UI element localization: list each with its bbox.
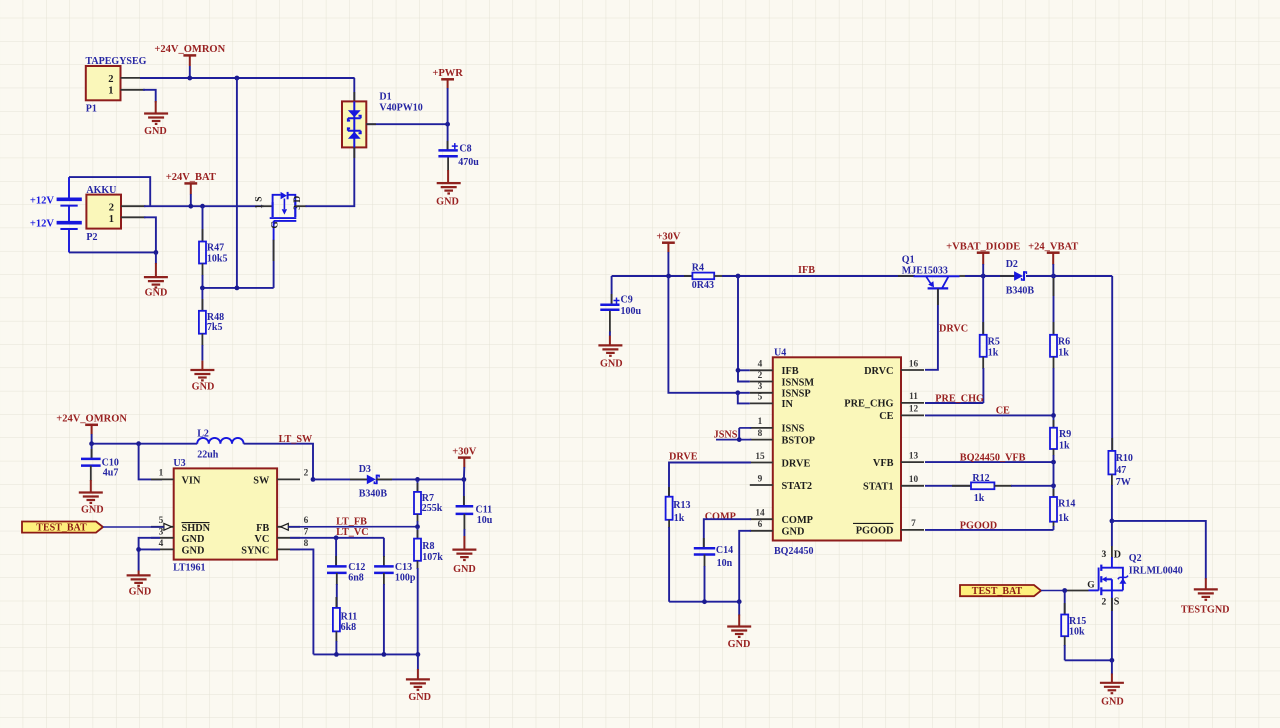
junction +24V_BAT port	[188, 204, 193, 209]
resistor R9 1k	[1050, 415, 1071, 462]
pin 8 of U4	[750, 439, 773, 441]
pin 9 of U4	[750, 484, 773, 486]
svg-text:G: G	[271, 221, 281, 229]
svg-text:1k: 1k	[974, 493, 985, 504]
wire vertical rail x236.9	[236, 78, 238, 288]
pin 12 of U4 (right)	[901, 414, 924, 416]
svg-text:2: 2	[758, 371, 763, 381]
IC U4 BQ24450	[773, 347, 901, 557]
svg-text:1k: 1k	[1058, 348, 1069, 359]
wire IFB net to pins 4,2	[738, 276, 750, 382]
wire net +24V_BAT row	[144, 205, 264, 207]
wire PRE_CHG	[925, 402, 983, 404]
svg-text:G: G	[1087, 581, 1095, 591]
svg-text:ISNSM: ISNSM	[782, 377, 815, 388]
net label JSNS with stub	[714, 428, 752, 442]
ground GND (U3)	[127, 575, 152, 597]
wire D1 bottom to mosfet drain	[306, 147, 355, 206]
svg-text:CE: CE	[879, 411, 893, 422]
resistor R7 255k	[414, 479, 443, 526]
svg-text:PGOOD: PGOOD	[856, 526, 894, 537]
svg-text:R47: R47	[207, 242, 224, 253]
pin 2 of U4	[750, 381, 773, 383]
svg-text:U3: U3	[173, 458, 185, 469]
wire +30V stem (left)	[463, 467, 465, 479]
svg-text:R4: R4	[692, 263, 704, 274]
svg-text:R12: R12	[972, 473, 989, 484]
svg-text:Q2: Q2	[1129, 553, 1142, 564]
wire CE row	[925, 414, 1054, 416]
junction source-R15	[1110, 658, 1115, 663]
wire +VBAT_DIODE stem	[982, 264, 984, 276]
svg-text:8: 8	[304, 539, 309, 549]
svg-text:COMP: COMP	[705, 511, 736, 522]
junction Q2 drain node	[1110, 519, 1115, 524]
mosfet Q3 (battery switch)	[255, 192, 307, 241]
svg-text:255k: 255k	[422, 503, 443, 514]
svg-text:12: 12	[909, 405, 919, 415]
resistor R10 47 7W	[1108, 451, 1133, 521]
svg-text:+24V_BAT: +24V_BAT	[166, 172, 216, 183]
wire down to D1 top	[353, 78, 355, 101]
svg-text:R8: R8	[422, 541, 434, 552]
pin 6 of U4	[750, 530, 773, 532]
svg-text:11: 11	[909, 392, 918, 402]
svg-text:DRVE: DRVE	[782, 458, 811, 469]
svg-text:GND: GND	[182, 546, 205, 557]
svg-text:+VBAT_DIODE: +VBAT_DIODE	[946, 242, 1020, 253]
battery B1 +12V cells	[30, 177, 82, 252]
junction U3 gnd	[136, 547, 141, 552]
power port +PWR	[432, 68, 463, 88]
diode D2 B340B	[1000, 259, 1040, 296]
wire Q2 drain	[1111, 521, 1113, 546]
ground GND (P2)	[144, 277, 168, 298]
ground TESTGND	[1181, 589, 1230, 615]
wire +30V stem (right)	[667, 252, 669, 276]
svg-text:10k: 10k	[1069, 626, 1085, 637]
wire +24V_OMRON stem	[189, 66, 191, 78]
svg-text:7k5: 7k5	[207, 322, 223, 333]
svg-text:10n: 10n	[717, 558, 733, 569]
svg-text:3: 3	[159, 527, 164, 537]
svg-text:GND: GND	[728, 639, 751, 650]
svg-text:DRVC: DRVC	[864, 366, 893, 377]
junction +PWR node	[445, 122, 450, 127]
svg-text:+12V: +12V	[30, 219, 54, 230]
svg-text:3: 3	[758, 382, 763, 392]
junction VFB node	[1051, 460, 1056, 465]
svg-text:IRLML0040: IRLML0040	[1129, 565, 1183, 576]
svg-text:GND: GND	[145, 287, 168, 298]
svg-text:1k: 1k	[988, 348, 999, 359]
junction rail gnd	[416, 652, 421, 657]
svg-text:CE: CE	[996, 405, 1010, 416]
capacitor C13 100p	[374, 556, 416, 654]
pin 5 of U3	[151, 526, 174, 528]
resistor R6 1k	[1050, 276, 1070, 415]
svg-text:C11: C11	[476, 504, 493, 515]
pin 2 of P2	[121, 205, 146, 207]
junction at x236.9 row78	[235, 76, 240, 81]
power port +24V_BAT	[166, 172, 216, 194]
pin 3 of U4	[750, 392, 773, 394]
svg-text:4: 4	[758, 360, 763, 370]
svg-text:DRVC: DRVC	[939, 324, 968, 335]
wire R48 to GND	[201, 361, 203, 370]
connector P1 TAPEGYSEG	[86, 56, 147, 114]
svg-text:Q1: Q1	[902, 254, 915, 265]
svg-text:COMP: COMP	[782, 515, 813, 526]
svg-text:7W: 7W	[1116, 477, 1131, 488]
resistor R12 1k (series STAT1)	[925, 473, 1054, 504]
svg-text:D: D	[1114, 549, 1121, 560]
junction +30V node	[666, 274, 671, 279]
svg-text:GND: GND	[144, 126, 167, 137]
svg-text:107k: 107k	[422, 552, 443, 563]
wire to TESTGND	[1112, 521, 1206, 579]
wire VC row	[290, 537, 384, 539]
wire net +24V_OMRON horizontal	[140, 77, 355, 79]
svg-text:6: 6	[758, 520, 763, 530]
resistor R4 0R43	[684, 263, 723, 292]
pin 10 of U4 (right)	[901, 485, 924, 487]
ground GND (rail)	[406, 679, 431, 703]
junction C12 top	[334, 535, 339, 540]
svg-text:GND: GND	[192, 382, 215, 393]
svg-text:TEST_BAT: TEST_BAT	[36, 523, 87, 534]
resistor R11 6k8	[333, 597, 357, 654]
svg-text:PRE_CHG: PRE_CHG	[844, 399, 893, 410]
wire to GND (Q2)	[1111, 660, 1113, 674]
svg-text:6: 6	[304, 516, 309, 526]
wire U4 GND pin to rail	[739, 531, 751, 602]
svg-text:1k: 1k	[674, 513, 685, 524]
svg-text:P1: P1	[86, 104, 97, 115]
svg-text:10u: 10u	[477, 515, 493, 526]
wire to GND (U4)	[738, 602, 740, 616]
junction at port +24V_OMRON	[187, 76, 192, 81]
svg-text:10k5: 10k5	[207, 253, 228, 264]
svg-text:LT_VC: LT_VC	[336, 527, 368, 538]
wire row 287.9	[202, 287, 273, 289]
junction R11 bottom	[334, 652, 339, 657]
junction R47 bottom	[200, 286, 205, 291]
ground GND (C10)	[79, 493, 104, 516]
wire pin4 to gnd node	[139, 548, 160, 550]
svg-text:2: 2	[109, 203, 114, 214]
svg-text:7: 7	[911, 519, 916, 529]
svg-text:D1: D1	[379, 91, 391, 102]
svg-text:1 S: 1 S	[255, 196, 265, 208]
svg-text:DRVE: DRVE	[669, 452, 698, 463]
pin 13 of U4 (right)	[901, 461, 924, 463]
svg-text:VC: VC	[254, 534, 269, 545]
junction battery gnd	[154, 250, 159, 255]
svg-text:1: 1	[108, 85, 113, 96]
junction pin4	[736, 368, 741, 373]
svg-text:R10: R10	[1116, 453, 1133, 464]
junction CE node	[1051, 413, 1056, 418]
diode D3 B340B	[359, 464, 388, 500]
power port +VBAT_DIODE	[946, 242, 1020, 265]
svg-text:4u7: 4u7	[103, 467, 119, 478]
svg-text:2: 2	[108, 74, 113, 85]
wire R9-R14 vertical	[1053, 462, 1055, 497]
svg-text:R13: R13	[673, 500, 690, 511]
svg-text:C8: C8	[459, 144, 471, 155]
svg-text:GND: GND	[81, 505, 104, 516]
wire D3 to +30V node	[376, 478, 464, 480]
svg-text:15: 15	[755, 452, 765, 462]
svg-text:+30V: +30V	[452, 446, 476, 457]
svg-text:FB: FB	[256, 523, 269, 534]
svg-text:GND: GND	[182, 534, 205, 545]
pin 6 of U3	[277, 526, 300, 528]
pin 8 of U3	[277, 548, 300, 550]
wire DRVE row	[669, 463, 751, 497]
svg-text:SHDN: SHDN	[182, 523, 211, 534]
resistor R15 10k	[1061, 591, 1086, 661]
wire +24_VBAT stem	[1052, 264, 1054, 276]
resistor R48 7k5	[199, 288, 224, 361]
wire +24V_BAT stem	[190, 194, 192, 206]
svg-text:2: 2	[1102, 597, 1107, 607]
svg-text:MJE15033: MJE15033	[902, 266, 948, 277]
pin 4 of U4	[750, 369, 773, 371]
svg-text:V40PW10: V40PW10	[379, 102, 422, 113]
pin 4 of U3	[151, 548, 174, 550]
svg-text:L2: L2	[197, 429, 209, 440]
svg-text:5: 5	[758, 393, 763, 403]
wire battery top to P2 pin2 net	[69, 177, 150, 206]
junction SW node	[311, 477, 316, 482]
power port +24V_OMRON (top)	[154, 44, 225, 66]
svg-text:1k: 1k	[1059, 441, 1070, 452]
svg-text:R14: R14	[1058, 499, 1075, 510]
capacitor C9 100u	[600, 276, 641, 345]
pin 2 of P1	[121, 77, 146, 79]
resistor R47 10k5	[199, 206, 227, 288]
svg-text:LT_SW: LT_SW	[279, 434, 313, 445]
resistor R14 1k	[1050, 489, 1075, 530]
IC U3 LT1961	[173, 458, 277, 574]
svg-text:GND: GND	[436, 196, 459, 207]
pin 11 of U4 (right)	[901, 402, 924, 404]
svg-text:7: 7	[304, 527, 309, 537]
svg-text:0R43: 0R43	[692, 280, 714, 291]
pin 15 of U4	[750, 462, 773, 464]
svg-text:3: 3	[1102, 550, 1107, 560]
wire L2 to SW	[244, 444, 313, 480]
svg-text:TEST_BAT: TEST_BAT	[972, 586, 1023, 597]
pin 7 of U4 (right)	[901, 529, 924, 531]
pin 16 of U4 (right)	[901, 369, 924, 371]
svg-text:TESTGND: TESTGND	[1181, 604, 1230, 615]
svg-text:10: 10	[909, 475, 919, 485]
svg-text:R11: R11	[341, 611, 358, 622]
svg-text:+PWR: +PWR	[432, 68, 463, 79]
wire IN tie	[738, 393, 750, 404]
power port +30V (left)	[452, 446, 476, 467]
capacitor C11 10u	[456, 479, 493, 549]
ground GND (R48)	[190, 370, 214, 393]
pin 1 of P2	[121, 216, 146, 218]
svg-text:+24V_OMRON: +24V_OMRON	[56, 414, 127, 425]
capacitor C8 470u	[438, 124, 479, 183]
svg-text:470u: 470u	[458, 157, 479, 168]
svg-text:VIN: VIN	[182, 475, 201, 486]
wire R15 to source rail	[1065, 659, 1112, 661]
wire bottom rail right	[669, 601, 739, 603]
svg-text:R9: R9	[1059, 429, 1071, 440]
ground GND (Q2)	[1100, 683, 1124, 708]
wire P2 pin1 to battery bottom	[69, 217, 156, 252]
svg-text:16: 16	[909, 359, 919, 369]
svg-text:IFB: IFB	[798, 265, 815, 276]
wire VFB row	[925, 461, 1054, 463]
wire row 443.7	[92, 443, 198, 445]
junction gnd rail right	[737, 599, 742, 604]
junction R12 node	[1051, 483, 1056, 488]
wire TEST_BAT to Q2 gate	[1041, 590, 1065, 592]
junction C14 bottom	[702, 599, 707, 604]
svg-text:4: 4	[159, 539, 164, 549]
svg-text:IN: IN	[782, 399, 794, 410]
pin 3 of U3	[151, 537, 174, 539]
junction +VBAT_DIODE	[981, 274, 986, 279]
wire D2 to +24_VBAT node	[1026, 275, 1112, 277]
power port +24V_OMRON (lower)	[56, 414, 127, 435]
wire R4 to Q1 (IFB net)	[722, 275, 915, 277]
wire C13 drop	[383, 538, 385, 557]
svg-text:6k8: 6k8	[341, 622, 357, 633]
port TEST_BAT (right)	[960, 585, 1041, 597]
svg-text:9: 9	[758, 474, 763, 484]
svg-text:14: 14	[755, 509, 765, 519]
svg-text:6n8: 6n8	[348, 573, 364, 584]
mosfet Q2 IRLML0040	[1087, 549, 1183, 607]
resistor R8 107k	[414, 527, 443, 655]
svg-text:GND: GND	[600, 359, 623, 370]
svg-text:1k: 1k	[1058, 513, 1069, 524]
svg-text:ISNSP: ISNSP	[782, 389, 811, 400]
wire +PWR stem	[447, 88, 449, 124]
wire SYNC to bottom rail	[290, 549, 313, 654]
wire row 276 left part	[612, 275, 692, 277]
svg-text:BQ24450: BQ24450	[774, 546, 813, 557]
svg-text:PRE_CHG: PRE_CHG	[935, 394, 984, 405]
svg-text:B340B: B340B	[359, 488, 388, 499]
junction C13 bottom	[382, 652, 387, 657]
svg-text:5: 5	[159, 516, 164, 526]
svg-text:BQ24450_VFB: BQ24450_VFB	[960, 452, 1026, 463]
wire PGOOD row	[925, 529, 1054, 531]
pin 2 of U3	[277, 478, 300, 480]
svg-text:ISNS: ISNS	[782, 424, 805, 435]
svg-text:SW: SW	[253, 475, 270, 486]
port TEST_BAT (left)	[22, 522, 103, 534]
power port +24_VBAT	[1028, 242, 1078, 265]
svg-text:P2: P2	[86, 232, 97, 243]
svg-text:+12V: +12V	[30, 196, 54, 207]
ground GND (U4)	[727, 627, 751, 651]
junction ISNSP-IN tie	[735, 390, 740, 395]
wire Q1 to +VBAT_DIODE node	[965, 275, 1015, 277]
svg-text:2: 2	[304, 469, 309, 479]
svg-text:1: 1	[758, 417, 763, 427]
wire +24V_OMRON lower stem	[91, 434, 93, 444]
wire +24V_OMRON to U3 VIN	[139, 444, 162, 480]
svg-text:C13: C13	[395, 562, 412, 573]
junction R47 top	[200, 204, 205, 209]
wire rail to GND	[417, 654, 419, 670]
pin 1 of P1	[121, 89, 146, 91]
svg-text:D3: D3	[359, 464, 371, 475]
svg-text:C14: C14	[716, 545, 733, 556]
svg-text:13: 13	[909, 451, 919, 461]
junction C10 top	[89, 441, 94, 446]
resistor R5 1k	[980, 276, 1000, 403]
pin 1 of U3	[151, 478, 174, 480]
junction +24_VBAT	[1051, 274, 1056, 279]
svg-text:LT1961: LT1961	[173, 563, 205, 574]
svg-text:C9: C9	[621, 295, 633, 306]
svg-text:GND: GND	[782, 527, 805, 538]
pin 7 of U3	[277, 537, 300, 539]
svg-text:GND: GND	[453, 564, 476, 575]
wire Q2 source down	[1111, 598, 1113, 661]
svg-text:GND: GND	[408, 692, 431, 703]
svg-text:8: 8	[758, 429, 763, 439]
wire U3 GND pins to ground	[139, 538, 160, 572]
wire +30V to ISNSP,IN	[668, 276, 749, 393]
svg-text:47: 47	[1116, 465, 1126, 476]
wire TEST_BAT to SHDN	[103, 526, 164, 528]
svg-text:R15: R15	[1069, 616, 1086, 627]
ground GND (C8)	[436, 183, 461, 207]
junction R7 top	[415, 477, 420, 482]
pin 14 of U4	[750, 518, 773, 520]
junction rail x236.9 bottom	[235, 286, 240, 291]
svg-text:22uh: 22uh	[197, 450, 219, 461]
junction FB node	[415, 524, 420, 529]
wire D1 mid to +PWR node	[366, 123, 447, 125]
wire Q1 base to DRVC	[925, 288, 938, 369]
ground GND (C9)	[598, 345, 622, 369]
svg-text:D2: D2	[1006, 259, 1018, 270]
svg-text:+24V_OMRON: +24V_OMRON	[154, 44, 225, 55]
wire bottom rail U3	[313, 653, 418, 655]
capacitor C10 4u7	[81, 444, 119, 493]
svg-text:BSTOP: BSTOP	[782, 435, 816, 446]
wire P1 pin1 to GND	[143, 90, 156, 103]
svg-text:VFB: VFB	[873, 458, 894, 469]
svg-text:1: 1	[159, 469, 164, 479]
junction IFB vertical	[736, 274, 741, 279]
power port +30V (right)	[656, 232, 680, 253]
wire +24_VBAT to R10	[1111, 276, 1113, 451]
wire mosfet gate down	[273, 240, 275, 288]
svg-text:+30V: +30V	[656, 232, 680, 243]
wire COMP to C14	[704, 519, 751, 548]
connector P2 AKKU	[86, 185, 121, 243]
inductor L2 22uh	[197, 429, 243, 461]
transistor Q1 MJE15033	[898, 254, 972, 288]
pin 5 of U4	[750, 402, 773, 404]
capacitor C14 10n	[694, 538, 733, 602]
wire SW to D3	[313, 478, 368, 480]
